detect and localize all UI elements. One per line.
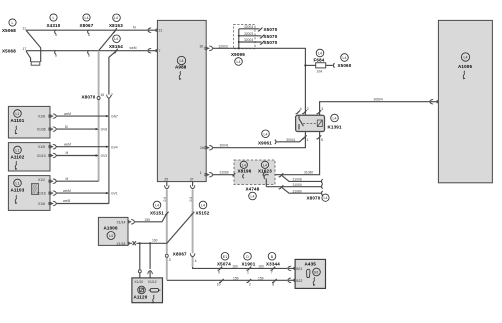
svg-text:GN7: GN7 (111, 115, 118, 119)
A435 circled B1 (313, 268, 321, 276)
connector X8067 symbol row1 (88, 30, 89, 34)
svg-text:weM: weM (130, 46, 137, 50)
gray bus pin25 down (166, 190, 168, 280)
svg-text:B22: B22 (296, 279, 302, 283)
svg-text:31080: 31080 (304, 171, 313, 175)
connector X8154 circled L4 (113, 35, 121, 43)
relay pin1 tick (302, 135, 307, 138)
connector X1623 fork (263, 172, 268, 186)
svg-text:A1101: A1101 (11, 118, 25, 123)
control unit A1101 (8, 106, 50, 138)
svg-text:4: 4 (195, 259, 197, 263)
svg-text:A988: A988 (175, 65, 187, 70)
svg-text:159: 159 (258, 277, 264, 281)
arrow GN7 (106, 115, 109, 117)
X5151 circled L4 (153, 201, 161, 209)
svg-text:X8153: X8153 (109, 23, 123, 28)
tick at X8196 box edge (233, 173, 236, 176)
tick row3 (260, 41, 265, 44)
svg-text:L: L (53, 16, 55, 20)
svg-text:31000: 31000 (293, 183, 302, 187)
svg-text:7: 7 (111, 93, 113, 97)
A1101 pin X1/36 hook (50, 128, 53, 130)
svg-text:X1901: X1901 (242, 262, 256, 267)
svg-text:X9061: X9061 (258, 140, 272, 145)
loudspeaker A435 (295, 259, 325, 288)
svg-text:32003: 32003 (244, 38, 253, 42)
svg-text:L4: L4 (201, 204, 205, 208)
svg-text:11: 11 (23, 27, 27, 31)
relay pin tick 2 (302, 110, 307, 113)
svg-text:L4: L4 (109, 234, 113, 238)
F684 circled L4 (316, 49, 324, 57)
svg-text:X1/10: X1/10 (134, 280, 143, 284)
svg-text:10: 10 (217, 283, 221, 287)
wire A988 pin37 down (192, 182, 194, 187)
svg-text:M: M (66, 151, 69, 155)
wire to fuse F684 (305, 64, 315, 66)
svg-text:X8070: X8070 (82, 95, 96, 100)
svg-text:GV6: GV6 (101, 128, 108, 132)
svg-text:X8196: X8196 (238, 168, 252, 173)
svg-text:L4: L4 (264, 132, 268, 136)
wire row2 to A988 pin 7 (26, 50, 147, 52)
wire fuse to X5060 (326, 64, 333, 66)
connector X8067 circled L4 (83, 14, 90, 21)
svg-text:3: 3 (169, 258, 171, 262)
wire 31008 (282, 175, 322, 181)
hook A435 row2 (288, 278, 292, 282)
wire row2 end segment (148, 50, 157, 52)
wire branch X8154 down (109, 51, 117, 204)
X5152 circled L4 (199, 201, 207, 209)
svg-text:31080: 31080 (220, 171, 229, 175)
svg-text:X5070: X5070 (264, 40, 278, 45)
relay coil link dashed (303, 123, 317, 125)
svg-text:X5060: X5060 (338, 63, 352, 68)
connector X4310 symbol row1 (55, 30, 56, 34)
svg-text:X5070: X5070 (264, 34, 278, 39)
svg-text:X5068: X5068 (2, 49, 16, 54)
X5060 circled L4 (341, 54, 349, 62)
wire 30604 to A1005 (320, 102, 430, 115)
arrow GV6 (96, 128, 99, 130)
connector X4310 circled L (50, 14, 57, 21)
connector X9061 hook (275, 140, 276, 144)
svg-text:10A: 10A (317, 69, 324, 73)
connector X8153 tick (113, 28, 117, 32)
control unit A1120 (132, 278, 163, 303)
junction dot row4 (238, 47, 240, 49)
A1006 pin X1/14 hook (128, 221, 131, 223)
A1102 function symbol (15, 161, 17, 170)
svg-text:30041: 30041 (286, 138, 295, 142)
svg-text:X5068: X5068 (2, 28, 16, 33)
svg-text:32003: 32003 (244, 32, 253, 36)
junction dot row2 (238, 35, 240, 37)
X5074 tick row1 (218, 267, 223, 271)
antenna lead from pin 11 (26, 30, 41, 62)
wire to A1120 pin X1/12 (149, 243, 151, 269)
svg-text:X5151: X5151 (150, 211, 164, 216)
svg-text:Di: Di (65, 125, 68, 129)
svg-text:L4: L4 (155, 204, 159, 208)
svg-text:L: L (12, 21, 14, 25)
wire weM to GV4 (57, 146, 109, 148)
antenna resistor element (31, 62, 40, 65)
svg-text:X1/5: X1/5 (38, 145, 45, 149)
svg-text:X8067: X8067 (173, 252, 187, 257)
relay coil (317, 120, 322, 127)
svg-text:L4: L4 (85, 16, 89, 20)
junction dot fuse branch (304, 64, 306, 66)
svg-text:0.5: 0.5 (163, 197, 167, 202)
svg-text:GV3: GV3 (101, 154, 108, 158)
svg-text:L4: L4 (114, 16, 118, 20)
svg-text:5: 5 (88, 33, 90, 37)
relay switch (299, 115, 303, 129)
A1102 pin X1/10 hook (50, 155, 53, 157)
X8196 circled L4 (240, 161, 247, 168)
svg-text:X5074: X5074 (217, 262, 231, 267)
svg-text:A1005: A1005 (458, 64, 472, 69)
svg-text:X8154: X8154 (109, 44, 123, 49)
svg-text:A1102: A1102 (11, 155, 25, 160)
svg-text:2: 2 (249, 283, 251, 287)
wire relay pin5 down to X1623 (270, 132, 320, 175)
fuse F684 (316, 63, 326, 68)
hook A1120 X1/12 (148, 271, 152, 275)
svg-text:L4: L4 (333, 117, 337, 121)
connector hook at A988 pin7 (148, 49, 152, 53)
A1103 pin X1/16 hook (50, 192, 53, 194)
A1101 circled L1 (14, 110, 22, 118)
svg-text:160: 160 (152, 239, 158, 243)
hook 31000 (321, 184, 322, 188)
svg-text:5: 5 (55, 33, 57, 37)
wire 31080 branch (282, 187, 322, 193)
svg-text:E1: E1 (223, 255, 227, 259)
wire 160 from A1006 (136, 214, 192, 244)
relay pin tick 4 (296, 110, 301, 113)
X9099 distribution bus (238, 29, 240, 49)
gray bus pin37 down (192, 190, 194, 267)
wire A988 pin1 to X8196 (206, 174, 209, 176)
svg-text:K1391: K1391 (328, 125, 342, 130)
wire X9099 row1 (239, 28, 260, 30)
gray bus wire left (98, 51, 100, 182)
hook 31008 (321, 179, 322, 183)
svg-text:L4: L4 (343, 56, 347, 60)
A1101 pin X1/8 hook (50, 115, 53, 117)
junction dot A1120 right (149, 242, 151, 244)
svg-text:L1: L1 (16, 149, 20, 153)
connector hook at A988 pin21 (148, 28, 152, 32)
svg-text:weiM: weiM (63, 189, 71, 193)
X5074 circled E1 (221, 252, 229, 260)
tick row2 (260, 35, 265, 38)
svg-text:L4: L4 (318, 52, 322, 56)
svg-text:160: 160 (232, 264, 238, 268)
svg-text:4: 4 (300, 107, 302, 111)
tick row1 (258, 28, 263, 31)
X1623 circled L4 (261, 161, 268, 168)
svg-text:L1: L1 (16, 112, 20, 116)
svg-text:25: 25 (164, 178, 168, 182)
X1901 tick row2 (247, 279, 252, 283)
A1006 circled L4 (107, 232, 115, 240)
X9061 circled L4 (262, 130, 270, 138)
wire 31000 (266, 186, 321, 188)
svg-text:L4: L4 (114, 37, 118, 41)
svg-text:M: M (66, 177, 69, 181)
X8067 hook right (190, 253, 194, 257)
relay pin tick 3 (317, 110, 322, 113)
wire X9099 row2 (239, 35, 262, 37)
arrow GV1 (106, 192, 109, 194)
wire M to GV3 (57, 155, 98, 157)
svg-text:3: 3 (321, 107, 323, 111)
svg-text:37: 37 (190, 178, 194, 182)
hook A1120 X1/10 (138, 270, 141, 278)
X3344 tick row2 (272, 279, 277, 283)
svg-text:B21: B21 (296, 267, 302, 271)
wire to A1120 pin X1/10 (139, 243, 141, 270)
svg-text:159: 159 (145, 218, 151, 222)
svg-text:17: 17 (23, 47, 27, 51)
hook 31080 (321, 191, 322, 195)
svg-text:X1/36: X1/36 (37, 128, 46, 132)
svg-text:X5070: X5070 (264, 27, 278, 32)
svg-text:X3344: X3344 (266, 262, 280, 267)
A1005 function symbol (463, 71, 465, 80)
connector X5152 tick (191, 212, 195, 216)
svg-text:X1/2: X1/2 (38, 178, 45, 182)
X4748 circled L4 (249, 192, 257, 200)
A1102 pin X1/5 hook (50, 146, 53, 148)
junction dot row3 (238, 41, 240, 43)
svg-text:X1/16: X1/16 (37, 192, 46, 196)
wire pin30 to X9099 bus (206, 47, 209, 49)
relay pin5 tick (317, 135, 322, 138)
A1120 function symbol (153, 295, 155, 304)
A1103 pin X1/2 hook (50, 180, 53, 182)
wire row1 to A988 pin 21 (26, 29, 147, 31)
control unit A1102 (8, 143, 50, 171)
wire row1 end segment (148, 29, 157, 31)
wire weiM to GV1 (57, 192, 109, 194)
svg-text:M: M (133, 26, 136, 30)
A1006 pin X1/18 hook (128, 241, 136, 245)
tick 31000 (279, 185, 284, 189)
A988 function symbol (179, 71, 181, 80)
svg-text:5: 5 (321, 138, 323, 142)
svg-text:X8067: X8067 (80, 23, 94, 28)
svg-text:159: 159 (233, 277, 239, 281)
svg-text:9: 9 (218, 270, 220, 274)
wire A988 pin25 down (166, 182, 168, 187)
control unit A1005 (438, 20, 492, 182)
wire weM to GN7 (57, 115, 109, 117)
svg-text:L4: L4 (237, 60, 241, 64)
A1103 internal connector block (32, 184, 39, 195)
svg-text:weM: weM (64, 142, 71, 146)
svg-text:A1103: A1103 (11, 188, 25, 193)
svg-text:A1006: A1006 (104, 226, 118, 231)
A1005 circled L4 (461, 53, 469, 61)
svg-text:7: 7 (271, 270, 273, 274)
svg-text:32903: 32903 (219, 44, 228, 48)
connector X8196 tick (243, 174, 244, 178)
A1103 pin X1/6 hook (50, 203, 53, 205)
hook below pin25 (165, 185, 169, 189)
svg-text:32003: 32003 (244, 25, 253, 29)
wire Di to GV6 (57, 128, 98, 130)
connector X8067 symbol row2 (88, 50, 89, 54)
connector X9099 dashed box (234, 25, 256, 49)
connector X8070 hook pin15 (97, 97, 100, 100)
svg-text:1: 1 (307, 138, 309, 142)
antenna lead from pin 17 (26, 51, 31, 62)
connector box X8196/X1623 (234, 160, 275, 185)
svg-text:2: 2 (307, 107, 309, 111)
svg-text:1: 1 (247, 270, 249, 274)
svg-text:21: 21 (159, 29, 163, 33)
connector X5068 circled L (row 1) (9, 19, 16, 26)
svg-text:GV4: GV4 (111, 145, 118, 149)
svg-text:X4748: X4748 (246, 187, 260, 192)
X5074 tick row2 (219, 279, 224, 283)
A1120 element symbol (149, 288, 161, 292)
svg-text:1: 1 (200, 171, 202, 175)
svg-text:X1/14: X1/14 (117, 220, 126, 224)
hook below pin37 (190, 185, 194, 189)
arrow GV3 (96, 154, 99, 156)
svg-text:F684: F684 (314, 58, 325, 63)
K1391 circled L4 (331, 114, 339, 122)
X1901 circled D (244, 252, 252, 260)
tick branch 31008 (279, 173, 284, 177)
A1103 function symbol (15, 195, 17, 204)
A1120 speaker symbol (138, 286, 146, 294)
svg-text:31080: 31080 (293, 189, 302, 193)
X9099 circled L4 (235, 58, 243, 66)
X3344 circled B (268, 252, 276, 260)
connector X8154 tick (114, 49, 118, 53)
wire relay pin1 to A988 pin16 (213, 132, 306, 148)
X8067 hook left (165, 254, 168, 257)
svg-text:weiB: weiB (63, 199, 71, 203)
wire X9061 to relay pin1 (277, 137, 306, 142)
X3344 tick row1 (271, 267, 276, 271)
connector X8070 hook pin7 (107, 95, 111, 99)
svg-text:A1120: A1120 (134, 295, 148, 300)
connector X5060 hook (333, 63, 334, 67)
A435 speaker capsule (307, 269, 310, 277)
svg-text:16: 16 (200, 146, 204, 150)
svg-text:7: 7 (159, 49, 161, 53)
connector X4310 symbol row2 (55, 50, 56, 54)
svg-text:X1/12: X1/12 (148, 280, 157, 284)
wire branch X8153 to gray bus (99, 30, 116, 51)
connector X8153 circled L4 (113, 14, 121, 22)
svg-text:30604: 30604 (374, 98, 383, 102)
svg-text:6: 6 (88, 53, 90, 57)
svg-text:L1: L1 (16, 182, 20, 186)
junction dot A1120 left (139, 242, 141, 244)
A988 circled L4 (177, 56, 185, 64)
svg-text:X1/6: X1/6 (38, 202, 45, 206)
A1102 circled L1 (14, 146, 22, 154)
svg-text:X1/10: X1/10 (37, 154, 46, 158)
relay K1391 (296, 115, 325, 131)
wire 159 from A1006 (135, 214, 167, 222)
svg-text:A435: A435 (305, 262, 317, 267)
svg-text:D: D (246, 255, 249, 259)
X1901 tick row1 (247, 267, 252, 271)
arrow GV4 (106, 146, 109, 148)
svg-text:GV1: GV1 (111, 192, 118, 196)
wire weiB to bus corner (57, 203, 109, 205)
svg-text:6: 6 (55, 53, 57, 57)
connector X5151 tick (165, 212, 169, 216)
svg-text:B1: B1 (314, 271, 318, 275)
svg-text:X4310: X4310 (47, 23, 61, 28)
A1103 circled L1 (14, 179, 22, 187)
svg-text:L4: L4 (180, 59, 184, 63)
control unit A988 (157, 20, 206, 181)
control unit A1006 (98, 217, 128, 245)
hook A435 row1 (288, 266, 292, 270)
A435 function symbol (313, 277, 315, 286)
svg-text:30: 30 (200, 45, 204, 49)
svg-text:X8070: X8070 (307, 196, 321, 201)
control unit A1103 (8, 176, 50, 211)
svg-text:X5152: X5152 (196, 211, 210, 216)
svg-text:L4: L4 (251, 195, 255, 199)
wire bus to A435 row1 (193, 267, 287, 269)
svg-text:L4: L4 (242, 163, 246, 167)
svg-text:X1/18: X1/18 (117, 242, 126, 246)
svg-text:X1/8: X1/8 (38, 115, 45, 119)
wire M to gray bus end (57, 180, 99, 182)
svg-text:L4: L4 (324, 196, 328, 200)
svg-text:X9099: X9099 (231, 52, 245, 57)
svg-text:31008: 31008 (293, 178, 302, 182)
A1101 function symbol (15, 126, 17, 135)
X8070 circled L4 (322, 194, 329, 201)
svg-text:8: 8 (272, 283, 274, 287)
svg-text:weM: weM (64, 112, 71, 116)
svg-text:L4: L4 (263, 163, 267, 167)
svg-text:L4: L4 (464, 56, 468, 60)
svg-text:0.5: 0.5 (189, 197, 193, 202)
svg-text:160: 160 (258, 264, 264, 268)
svg-text:30041: 30041 (220, 144, 229, 148)
svg-text:15: 15 (100, 93, 104, 97)
wire X9099 row3 (239, 41, 262, 43)
